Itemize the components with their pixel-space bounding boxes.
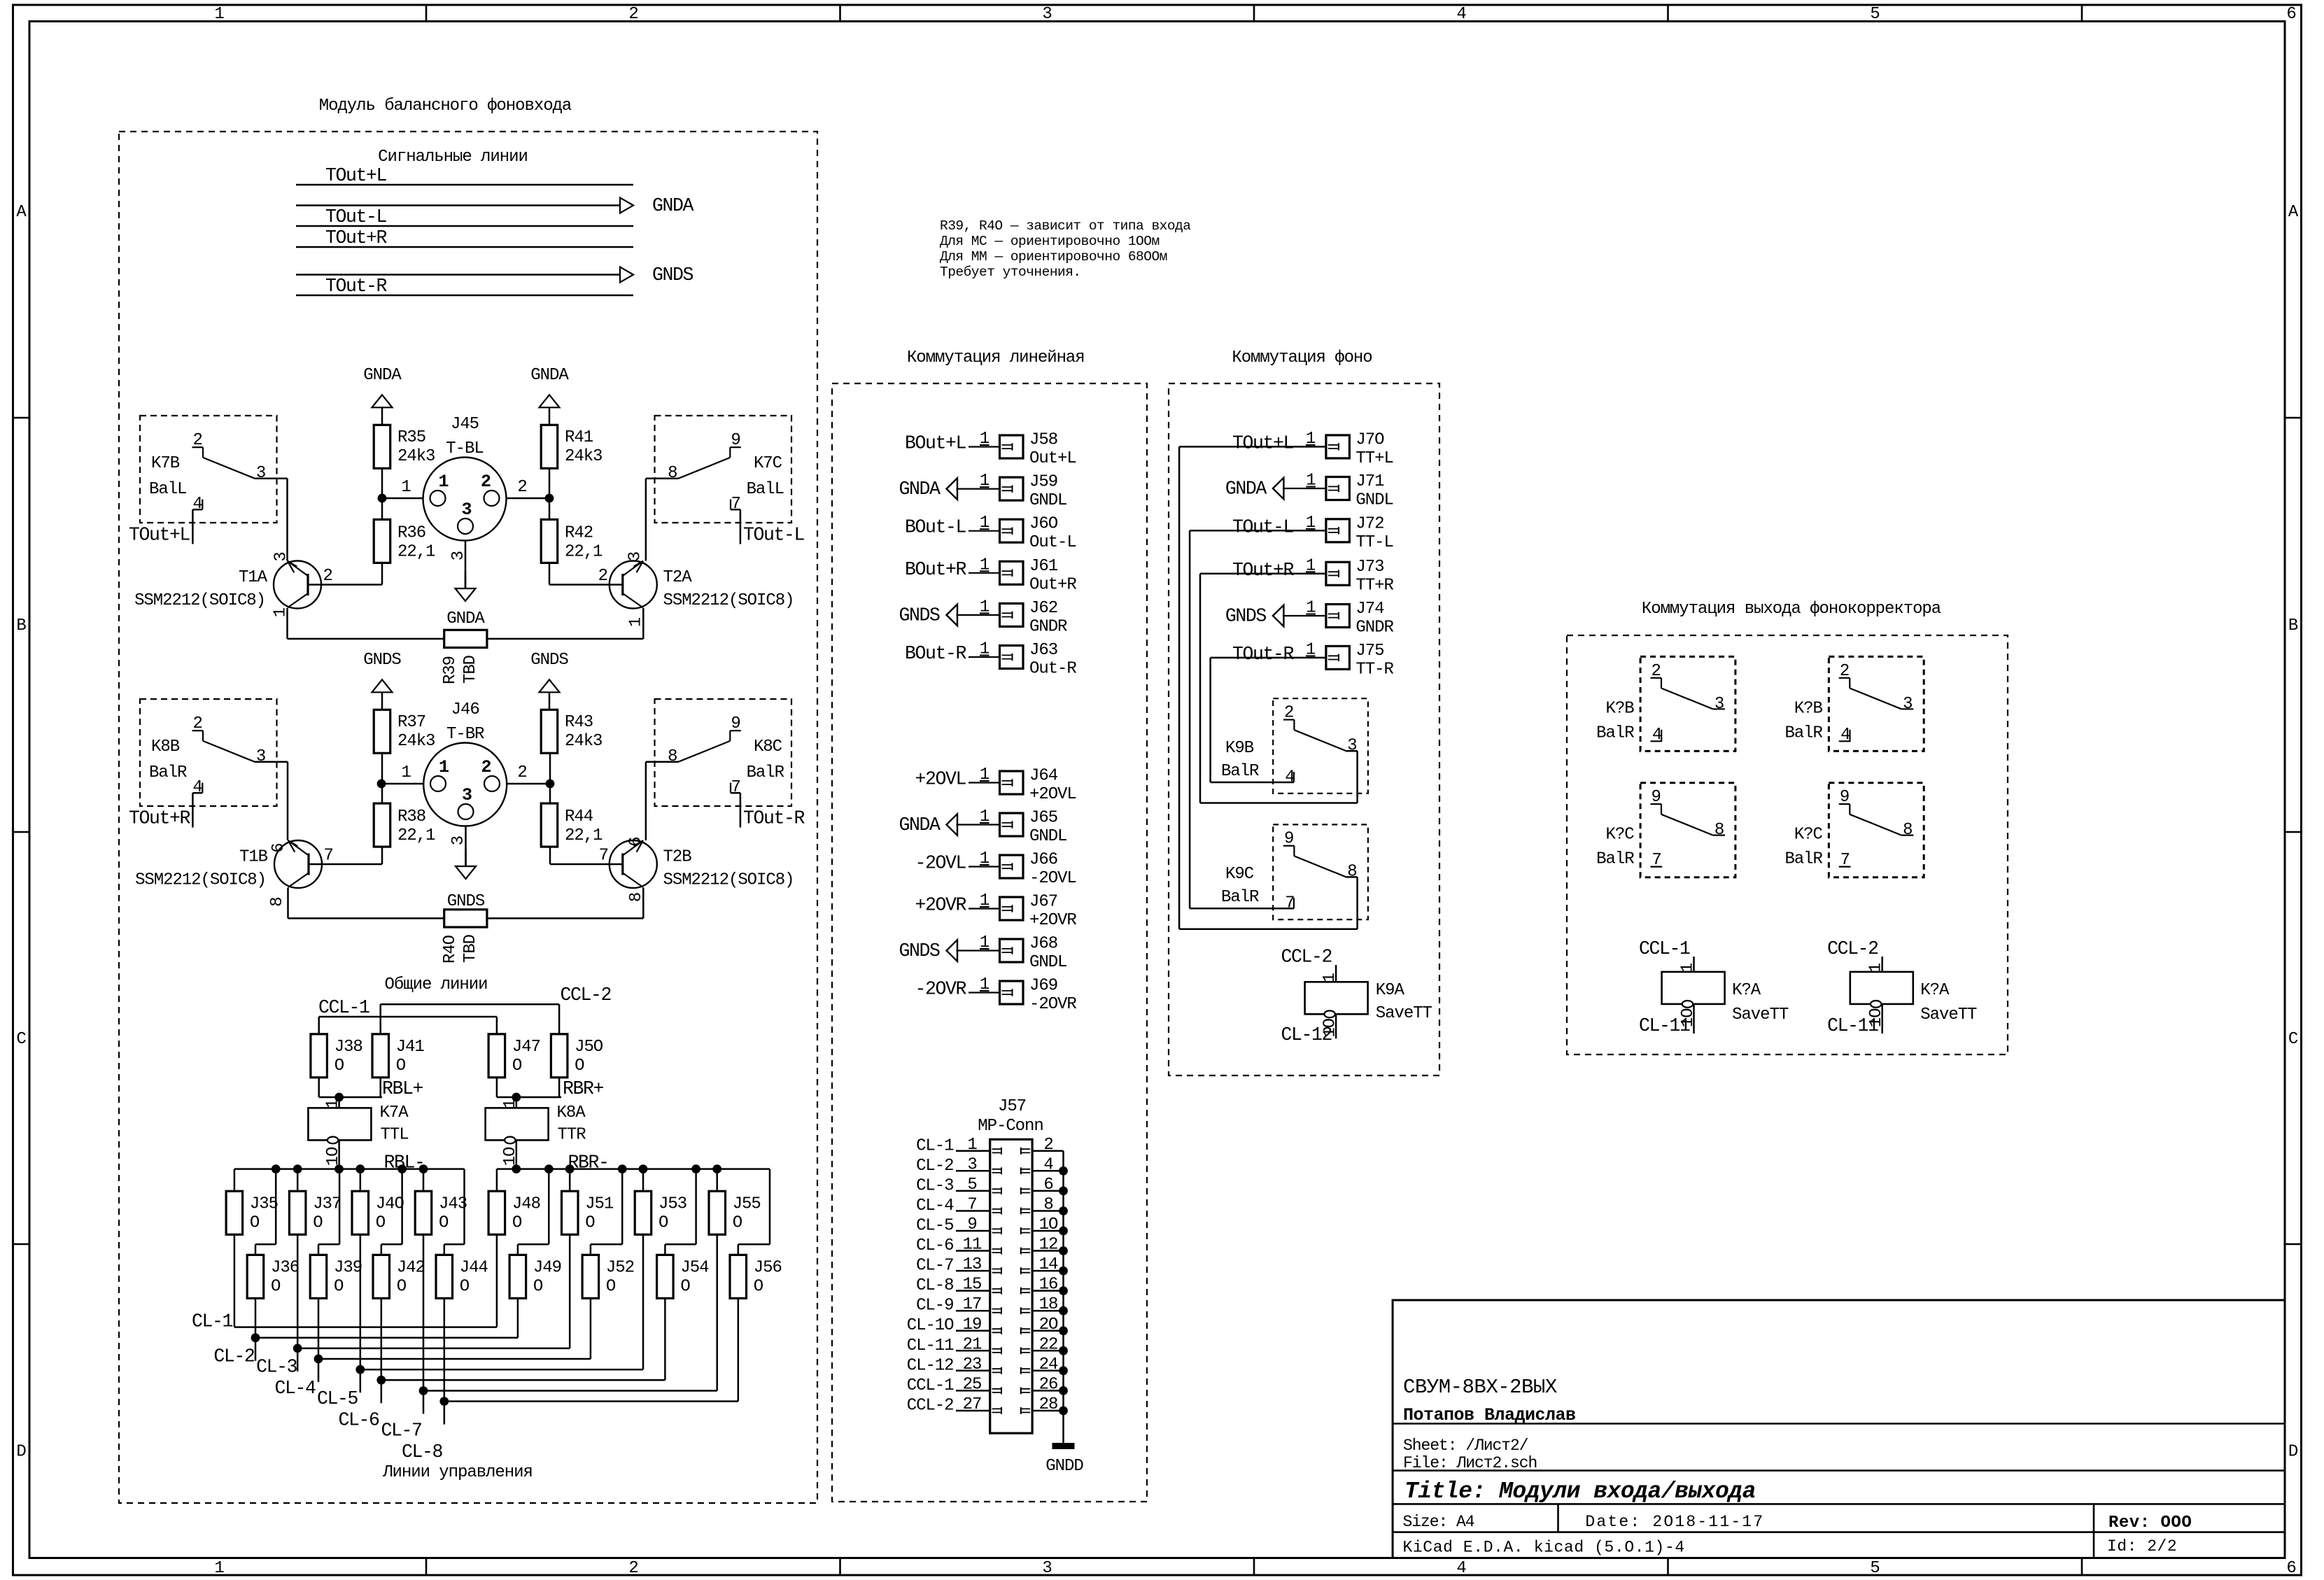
svg-text:4: 4 bbox=[192, 495, 202, 514]
wire bus to J48 bbox=[496, 1169, 498, 1192]
transistor T2A SSM2212(SOIC8) bbox=[598, 552, 794, 627]
resistor J43 0 bbox=[415, 1191, 467, 1234]
svg-text:File: Лист2.sch: File: Лист2.sch bbox=[1403, 1454, 1537, 1472]
svg-text:SSM2212(SOIC8): SSM2212(SOIC8) bbox=[663, 871, 794, 890]
svg-text:11: 11 bbox=[963, 1236, 982, 1255]
resistor J40 0 bbox=[352, 1191, 404, 1234]
svg-text:CL-8: CL-8 bbox=[916, 1276, 953, 1295]
pin 23 CL-12 of J57 bbox=[907, 1355, 1001, 1376]
svg-text:CCL-1: CCL-1 bbox=[318, 997, 369, 1018]
svg-text:CL-11: CL-11 bbox=[1827, 1015, 1878, 1036]
svg-text:1: 1 bbox=[439, 757, 449, 777]
svg-text:BalR: BalR bbox=[1596, 850, 1634, 869]
section box phono switching bbox=[1169, 383, 1439, 1075]
svg-text:J51: J51 bbox=[585, 1194, 614, 1213]
junction on control bus bbox=[712, 1164, 721, 1173]
power GNDA below J45 bbox=[446, 571, 485, 628]
svg-text:CL-1: CL-1 bbox=[192, 1311, 233, 1332]
svg-text:9: 9 bbox=[967, 1215, 976, 1234]
svg-text:GNDR: GNDR bbox=[1029, 617, 1067, 636]
svg-text:J39: J39 bbox=[334, 1258, 362, 1277]
svg-text:5: 5 bbox=[1870, 1559, 1879, 1578]
pin 8 of J57 bbox=[1021, 1196, 1064, 1215]
svg-text:CL-2: CL-2 bbox=[916, 1157, 953, 1176]
wire bus jog to J52 bbox=[591, 1169, 622, 1255]
svg-text:CL-7: CL-7 bbox=[381, 1420, 421, 1441]
svg-text:K8A: K8A bbox=[557, 1103, 586, 1122]
svg-text:RBL+: RBL+ bbox=[382, 1078, 423, 1099]
resistor J47 0 bbox=[488, 1034, 540, 1078]
junction CL-4 bbox=[314, 1355, 323, 1364]
module box: Модуль балансного фоновхода bbox=[119, 132, 817, 1503]
pin 15 CL-8 of J57 bbox=[916, 1276, 1001, 1296]
svg-text:Size: A4: Size: A4 bbox=[1403, 1513, 1474, 1531]
svg-text:C: C bbox=[2288, 1030, 2298, 1049]
svg-text:Sheet: /Лист2/: Sheet: /Лист2/ bbox=[1403, 1437, 1528, 1455]
svg-text:2: 2 bbox=[517, 763, 526, 782]
svg-text:TOut-R: TOut-R bbox=[1232, 644, 1295, 665]
svg-text:J63: J63 bbox=[1029, 641, 1057, 660]
svg-text:BOut+L: BOut+L bbox=[905, 433, 966, 454]
svg-text:GNDL: GNDL bbox=[1029, 491, 1066, 510]
svg-text:-2OVL: -2OVL bbox=[915, 853, 966, 874]
wire K8C pin7 to label TOut-R bbox=[731, 793, 805, 828]
resistor R41 24k3 bbox=[541, 425, 602, 468]
svg-text:1: 1 bbox=[1867, 963, 1886, 973]
resistor J56 0 bbox=[730, 1255, 782, 1298]
svg-text:24: 24 bbox=[1039, 1355, 1058, 1374]
svg-text:O: O bbox=[334, 1277, 344, 1296]
pin 1 CL-1 of J57 bbox=[916, 1136, 1001, 1156]
pin 9 CL-5 of J57 bbox=[916, 1215, 1001, 1236]
wire J45 pin3 to GNDA bbox=[449, 541, 468, 589]
resistor R36 22,1 bbox=[374, 519, 435, 563]
svg-text:J52: J52 bbox=[606, 1258, 634, 1277]
pin 12 of J57 bbox=[1021, 1236, 1064, 1255]
pin 6 of J57 bbox=[1021, 1176, 1064, 1194]
wire net CL-6 bbox=[338, 1298, 665, 1431]
resistor J49 0 bbox=[509, 1255, 561, 1298]
wire bus jog to J39 bbox=[318, 1169, 339, 1255]
svg-text:J42: J42 bbox=[397, 1258, 425, 1277]
wire RBR- bus bbox=[497, 1152, 770, 1173]
relay coil K8A TTR bbox=[486, 1099, 586, 1166]
svg-text:Модуль балансного фоновхода: Модуль балансного фоновхода bbox=[319, 97, 572, 115]
svg-text:KiCad E.D.A. kicad (5.O.1)-4: KiCad E.D.A. kicad (5.O.1)-4 bbox=[1403, 1539, 1685, 1557]
transistor T1A SSM2212(SOIC8) bbox=[134, 552, 332, 617]
svg-text:K7B: K7B bbox=[151, 454, 180, 473]
svg-text:Для MC — ориентировочно 1OOм: Для MC — ориентировочно 1OOм bbox=[940, 234, 1160, 249]
svg-text:GNDL: GNDL bbox=[1029, 953, 1066, 972]
wire bus to J35 bbox=[234, 1169, 236, 1192]
svg-text:R37: R37 bbox=[397, 713, 425, 732]
svg-text:J45: J45 bbox=[451, 415, 479, 434]
wire bus to J43 bbox=[423, 1169, 425, 1192]
junction on control bus bbox=[544, 1164, 554, 1173]
svg-text:CL-2: CL-2 bbox=[213, 1346, 255, 1367]
svg-text:24k3: 24k3 bbox=[565, 732, 602, 751]
svg-text:J49: J49 bbox=[533, 1258, 561, 1277]
junction on GNDD bus bbox=[1059, 1187, 1068, 1196]
resistor J36 0 bbox=[247, 1255, 299, 1298]
svg-text:O: O bbox=[733, 1213, 742, 1232]
svg-text:K?B: K?B bbox=[1606, 699, 1635, 718]
wire CCL-2 to K?A pin1 #2 bbox=[1827, 938, 1882, 972]
svg-text:1: 1 bbox=[324, 1099, 343, 1109]
junction on GNDD bus bbox=[1059, 1206, 1068, 1215]
junction on control bus bbox=[355, 1164, 365, 1173]
svg-text:Потапов Владислав: Потапов Владислав bbox=[1403, 1405, 1576, 1425]
svg-text:7: 7 bbox=[324, 847, 333, 866]
resistor R43 24k3 bbox=[541, 710, 602, 753]
ground GNDD bbox=[1045, 1443, 1083, 1476]
svg-text:CCL-2: CCL-2 bbox=[1281, 947, 1332, 968]
svg-text:24k3: 24k3 bbox=[397, 732, 435, 751]
svg-text:Общие линии: Общие линии bbox=[385, 975, 488, 994]
svg-text:19: 19 bbox=[963, 1316, 982, 1334]
pin 22 of J57 bbox=[1021, 1335, 1064, 1354]
svg-text:12: 12 bbox=[1039, 1236, 1058, 1255]
junction on GNDD bus bbox=[1059, 1166, 1068, 1176]
svg-text:TOut-L: TOut-L bbox=[325, 206, 387, 227]
relay contact K9B BalR bbox=[1221, 698, 1368, 793]
svg-text:26: 26 bbox=[1039, 1375, 1058, 1394]
resistor J50 0 bbox=[551, 1034, 603, 1078]
connector J69 -20VR bbox=[915, 975, 1076, 1014]
relay contact K?B BalR #1 bbox=[1596, 656, 1735, 751]
svg-text:K8C: K8C bbox=[754, 738, 782, 756]
svg-text:BalR: BalR bbox=[1784, 724, 1822, 742]
resistor R38 22,1 bbox=[374, 803, 435, 847]
svg-text:B: B bbox=[2288, 616, 2298, 635]
relay contact K9C BalR bbox=[1221, 824, 1368, 919]
svg-text:5: 5 bbox=[1870, 5, 1879, 24]
connector J73 TT+R bbox=[1200, 556, 1393, 595]
resistor J48 0 bbox=[488, 1191, 540, 1234]
connector J65 GNDL bbox=[899, 807, 1066, 846]
power GNDS above R37 bbox=[363, 651, 401, 710]
svg-text:J41: J41 bbox=[396, 1038, 425, 1057]
svg-text:J46: J46 bbox=[451, 700, 479, 719]
svg-text:O: O bbox=[512, 1057, 522, 1075]
svg-text:A: A bbox=[16, 203, 27, 222]
svg-text:T1B: T1B bbox=[239, 848, 268, 867]
svg-text:SSM2212(SOIC8): SSM2212(SOIC8) bbox=[663, 591, 794, 610]
svg-text:CL-9: CL-9 bbox=[916, 1297, 953, 1316]
junction RBL+ bbox=[334, 1093, 344, 1102]
junction on control bus bbox=[272, 1164, 281, 1173]
svg-text:J65: J65 bbox=[1029, 809, 1057, 828]
wire bus jog to J44 bbox=[444, 1169, 465, 1255]
resistor J41 0 bbox=[372, 1034, 424, 1078]
resistor J51 0 bbox=[562, 1191, 614, 1234]
svg-text:2: 2 bbox=[1043, 1136, 1052, 1155]
junction on GNDD bus bbox=[1059, 1386, 1068, 1395]
svg-text:8: 8 bbox=[668, 747, 677, 766]
junction on GNDD bus bbox=[1059, 1306, 1068, 1316]
svg-text:15: 15 bbox=[963, 1276, 982, 1295]
wire T2A emitter down to R39 line bbox=[488, 608, 644, 639]
svg-text:TOut+R: TOut+R bbox=[325, 227, 388, 248]
svg-text:24k3: 24k3 bbox=[397, 447, 435, 466]
svg-text:J4O: J4O bbox=[376, 1194, 404, 1213]
pin 27 CCL-2 of J57 bbox=[907, 1395, 1001, 1416]
svg-text:CL-1: CL-1 bbox=[916, 1136, 954, 1155]
svg-text:D: D bbox=[16, 1443, 26, 1462]
wire K8C pin8 to T2B bbox=[646, 762, 679, 840]
svg-text:7: 7 bbox=[731, 778, 740, 797]
wire net CL-2 bbox=[213, 1298, 518, 1367]
svg-text:J53: J53 bbox=[659, 1194, 686, 1213]
connector J64 +20VL bbox=[915, 766, 1076, 804]
svg-text:J59: J59 bbox=[1029, 473, 1057, 492]
pin 17 CL-9 of J57 bbox=[916, 1295, 1001, 1316]
svg-text:17: 17 bbox=[963, 1295, 982, 1314]
svg-text:2O: 2O bbox=[1039, 1316, 1058, 1334]
svg-text:J35: J35 bbox=[250, 1194, 278, 1213]
junction on GNDD bus bbox=[1059, 1286, 1068, 1295]
section title: Общие линии bbox=[385, 975, 488, 994]
section title: Сигнальные линии bbox=[378, 148, 528, 167]
wire K9C pin8 return bbox=[1346, 877, 1357, 929]
relay coil K?A SaveTT #1 bbox=[1662, 963, 1789, 1027]
pin 13 CL-7 of J57 bbox=[916, 1255, 1001, 1276]
connector J75 TT-R bbox=[1211, 640, 1394, 679]
power GNDA above R41 bbox=[530, 366, 569, 425]
svg-text:B: B bbox=[16, 616, 26, 635]
svg-text:6: 6 bbox=[1043, 1176, 1052, 1194]
junction on GNDD bus bbox=[1059, 1227, 1068, 1236]
svg-text:8: 8 bbox=[1347, 863, 1356, 882]
svg-text:6: 6 bbox=[2286, 5, 2295, 24]
connector J58 Out+L bbox=[905, 430, 1076, 468]
svg-text:J55: J55 bbox=[733, 1194, 761, 1213]
svg-text:Out-R: Out-R bbox=[1029, 660, 1076, 679]
section box phono output switching bbox=[1567, 635, 2008, 1054]
svg-text:7: 7 bbox=[731, 495, 740, 514]
svg-text:K?C: K?C bbox=[1794, 826, 1823, 845]
svg-text:Требует уточнения.: Требует уточнения. bbox=[940, 264, 1081, 280]
svg-text:K9B: K9B bbox=[1225, 739, 1254, 758]
svg-text:O: O bbox=[585, 1213, 595, 1232]
resistor J44 0 bbox=[436, 1255, 488, 1298]
wire T1A emitter down to R39 line bbox=[288, 608, 444, 639]
svg-text:+2OVL: +2OVL bbox=[915, 769, 966, 790]
svg-text:GNDA: GNDA bbox=[899, 479, 941, 500]
svg-text:TT+L: TT+L bbox=[1355, 449, 1393, 468]
wire bus to J53 bbox=[642, 1169, 645, 1192]
svg-text:R43: R43 bbox=[565, 713, 593, 732]
svg-text:BalR: BalR bbox=[149, 763, 187, 782]
wire R37 to node3 bbox=[381, 753, 383, 784]
svg-text:TT-L: TT-L bbox=[1355, 533, 1393, 552]
wire R41 to node2 bbox=[549, 468, 551, 498]
wire K7C pin8 to T2A bbox=[646, 479, 679, 561]
svg-text:T-BL: T-BL bbox=[446, 439, 483, 458]
resistor J38 0 bbox=[311, 1034, 362, 1078]
svg-text:SSM2212(SOIC8): SSM2212(SOIC8) bbox=[134, 591, 265, 610]
junction CL-6 bbox=[376, 1376, 386, 1385]
svg-text:GNDS: GNDS bbox=[899, 940, 940, 961]
pin 10 of J57 bbox=[1021, 1215, 1064, 1234]
svg-text:Rev: OOO: Rev: OOO bbox=[2108, 1514, 2192, 1532]
svg-text:GNDS: GNDS bbox=[1225, 606, 1267, 627]
junction on control bus bbox=[293, 1164, 302, 1173]
wire T1A base to R36 bbox=[308, 563, 382, 584]
svg-text:J37: J37 bbox=[313, 1194, 341, 1213]
svg-text:Title: Модули входа/выхода: Title: Модули входа/выхода bbox=[1404, 1479, 1756, 1504]
svg-text:RBR+: RBR+ bbox=[563, 1078, 604, 1099]
svg-text:8: 8 bbox=[1714, 821, 1724, 840]
wire R35 to node1 bbox=[381, 468, 383, 498]
svg-text:O: O bbox=[397, 1277, 407, 1296]
svg-text:1: 1 bbox=[401, 763, 411, 782]
svg-text:2: 2 bbox=[598, 567, 607, 586]
svg-text:SaveTT: SaveTT bbox=[1376, 1004, 1432, 1023]
wire TOut+R vertical to K9B bbox=[1200, 574, 1358, 803]
wire J46 pin3 to GNDS bbox=[449, 826, 468, 867]
svg-text:GNDS: GNDS bbox=[530, 651, 568, 670]
svg-text:TOut+R: TOut+R bbox=[129, 808, 191, 829]
junction on GNDD bus bbox=[1059, 1366, 1068, 1375]
svg-text:2: 2 bbox=[323, 567, 332, 586]
svg-text:Для MM — ориентировочно 68OОм: Для MM — ориентировочно 68OОм bbox=[940, 249, 1167, 264]
svg-text:BalR: BalR bbox=[1784, 850, 1822, 869]
wire K8B pin4 to label TOut+R bbox=[129, 793, 202, 828]
section title: Коммутация выхода фонокорректора bbox=[1642, 600, 1941, 619]
wire bus jog to J56 bbox=[738, 1169, 770, 1255]
svg-text:Коммутация фоно: Коммутация фоно bbox=[1232, 348, 1372, 367]
svg-text:3: 3 bbox=[1347, 737, 1356, 756]
svg-text:O: O bbox=[250, 1213, 260, 1232]
svg-text:K?C: K?C bbox=[1606, 826, 1635, 845]
svg-text:CL-1O: CL-1O bbox=[907, 1316, 954, 1335]
resistor R44 22,1 bbox=[541, 803, 603, 847]
connector J72 TT-L bbox=[1190, 514, 1393, 552]
junction on GNDD bus bbox=[1059, 1267, 1068, 1276]
svg-text:J57: J57 bbox=[998, 1097, 1026, 1116]
svg-text:24k3: 24k3 bbox=[565, 447, 602, 466]
resistor J39 0 bbox=[310, 1255, 362, 1298]
resistor R39 TBD (horizontal) bbox=[441, 630, 487, 684]
svg-text:6: 6 bbox=[627, 837, 646, 846]
svg-text:2: 2 bbox=[628, 1559, 638, 1578]
svg-text:TT-R: TT-R bbox=[1355, 660, 1393, 679]
title block texts bbox=[1403, 1376, 2192, 1557]
svg-text:K7A: K7A bbox=[380, 1103, 409, 1122]
svg-text:CL-12: CL-12 bbox=[907, 1356, 954, 1375]
svg-text:J38: J38 bbox=[334, 1038, 362, 1057]
svg-text:+2OVR: +2OVR bbox=[1029, 911, 1076, 930]
svg-text:Коммутация выхода фонокорректо: Коммутация выхода фонокорректора bbox=[1642, 600, 1941, 619]
svg-text:16: 16 bbox=[1039, 1276, 1058, 1295]
svg-text:CCL-2: CCL-2 bbox=[561, 985, 612, 1006]
junction on GNDD bus bbox=[1059, 1346, 1068, 1355]
svg-text:CL-3: CL-3 bbox=[916, 1176, 953, 1195]
pin 4 of J57 bbox=[1021, 1155, 1064, 1174]
svg-text:GNDL: GNDL bbox=[1355, 491, 1393, 510]
wire net CL-4 bbox=[274, 1298, 590, 1399]
resistor J35 0 bbox=[226, 1191, 278, 1234]
relay contact K?C BalR #1 bbox=[1596, 783, 1735, 877]
svg-text:-2OVR: -2OVR bbox=[1029, 995, 1076, 1014]
svg-text:Out+R: Out+R bbox=[1029, 575, 1076, 594]
svg-text:J43: J43 bbox=[439, 1194, 467, 1213]
svg-text:1: 1 bbox=[401, 478, 411, 497]
wire T2A base to R42 bbox=[549, 563, 623, 584]
wire bus jog to J54 bbox=[665, 1169, 696, 1255]
svg-text:8: 8 bbox=[1043, 1196, 1052, 1215]
svg-text:GNDA: GNDA bbox=[1225, 479, 1267, 500]
svg-text:3: 3 bbox=[256, 464, 265, 483]
wire TOut-L vertical to K9C pin7 bbox=[1190, 530, 1294, 908]
relay contact K?C BalR #2 bbox=[1784, 783, 1924, 877]
svg-text:TOut-L: TOut-L bbox=[1232, 516, 1294, 537]
svg-text:8: 8 bbox=[668, 464, 677, 483]
svg-text:J68: J68 bbox=[1029, 935, 1057, 954]
svg-text:BalR: BalR bbox=[1596, 724, 1634, 742]
wire R43 to node4 bbox=[549, 753, 551, 784]
svg-text:CCL-1: CCL-1 bbox=[1639, 938, 1690, 959]
svg-text:TTR: TTR bbox=[558, 1126, 586, 1145]
svg-text:3: 3 bbox=[1042, 5, 1051, 24]
svg-text:3: 3 bbox=[256, 747, 265, 766]
junction on control bus bbox=[639, 1164, 648, 1173]
svg-text:3: 3 bbox=[1714, 695, 1724, 714]
wire TOut+L vertical to K9C bbox=[1179, 446, 1358, 929]
junction CL-5 bbox=[355, 1365, 365, 1374]
connector J67 +20VR bbox=[915, 891, 1076, 930]
pin 3 CL-2 of J57 bbox=[916, 1155, 1001, 1176]
svg-text:8: 8 bbox=[1903, 821, 1912, 840]
svg-text:K9C: K9C bbox=[1225, 865, 1254, 884]
svg-text:Id: 2/2: Id: 2/2 bbox=[2107, 1537, 2177, 1556]
wire K7B pin3 to T1A bbox=[255, 479, 288, 561]
relay contact K7B BalL bbox=[140, 416, 277, 523]
wire GNDD bus bbox=[1062, 1151, 1064, 1443]
svg-text:1O: 1O bbox=[1039, 1215, 1058, 1234]
wire J38/J41 bottoms to K7A pin1, label RBL+ bbox=[319, 1078, 423, 1108]
svg-text:J7O: J7O bbox=[1355, 430, 1384, 449]
resistor R42 22,1 bbox=[541, 519, 603, 563]
pin 21 CL-11 of J57 bbox=[907, 1335, 1001, 1355]
wire CCL-2 to K9A pin1 bbox=[1281, 947, 1336, 982]
connector J71 GNDL bbox=[1225, 472, 1393, 510]
svg-text:СВУМ-8ВХ-2ВЫХ: СВУМ-8ВХ-2ВЫХ bbox=[1403, 1376, 1557, 1399]
svg-text:J48: J48 bbox=[512, 1194, 540, 1213]
note about R39 R40 bbox=[940, 218, 1191, 280]
svg-text:TOut-L: TOut-L bbox=[743, 525, 805, 546]
svg-text:1: 1 bbox=[501, 1099, 520, 1109]
svg-text:CL-3: CL-3 bbox=[256, 1357, 297, 1378]
svg-text:J69: J69 bbox=[1029, 977, 1057, 996]
svg-text:BalR: BalR bbox=[747, 763, 784, 782]
junction on control bus bbox=[691, 1164, 700, 1173]
svg-text:J62: J62 bbox=[1029, 599, 1057, 618]
relay contact K7C BalL bbox=[655, 416, 792, 523]
wire K7C pin7 to label TOut-L bbox=[731, 509, 805, 545]
svg-text:O: O bbox=[680, 1277, 690, 1296]
connector J57 MP-Conn bbox=[978, 1097, 1043, 1433]
svg-text:4: 4 bbox=[192, 778, 202, 797]
wire to global label GNDA bbox=[296, 195, 694, 216]
svg-text:T2B: T2B bbox=[663, 848, 692, 867]
svg-text:3: 3 bbox=[462, 785, 472, 805]
svg-text:Линии управления: Линии управления bbox=[382, 1463, 533, 1482]
svg-text:GNDS: GNDS bbox=[447, 892, 485, 911]
svg-text:O: O bbox=[334, 1057, 344, 1075]
wire bus to J37 bbox=[297, 1169, 299, 1192]
